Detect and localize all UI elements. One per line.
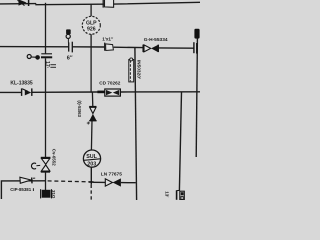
- far-right black terminal: [194, 29, 199, 39]
- wire top rail right: [36, 2, 200, 4]
- svg-text:(I)-53I63: (I)-53I63: [77, 100, 82, 117]
- terminal circle: [27, 55, 31, 59]
- svg-text:LN 77675: LN 77675: [101, 171, 122, 177]
- valve box 1'x1": [105, 43, 114, 51]
- diode D-top-left: [18, 0, 29, 6]
- long vertical wire x~135: [135, 47, 137, 200]
- junction dot: [35, 55, 40, 60]
- polarized capacitor plates on x=45.5: [41, 54, 52, 58]
- svg-text:Cv-6552: Cv-6552: [52, 149, 57, 166]
- wire to LN diode: [93, 181, 105, 183]
- tick mark near X-diode: [87, 122, 90, 125]
- tick marks left: [33, 178, 35, 191]
- dashed vertical below junction: [90, 185, 92, 200]
- svg-text:17·: 17·: [44, 61, 50, 69]
- wire X-diode to SUL stamp: [90, 121, 93, 151]
- wire into SUL junction: [90, 167, 92, 185]
- svg-text:13′: 13′: [165, 191, 170, 198]
- far-right vertical wire: [196, 38, 197, 157]
- stub wire: [31, 56, 35, 58]
- wire mid rail y~47: [0, 47, 194, 49]
- svg-text:CD 70262: CD 70262: [99, 81, 121, 86]
- stamp GLP 926: [82, 16, 100, 34]
- svg-text:6″: 6″: [67, 55, 73, 61]
- diode KL-13835: [22, 88, 32, 96]
- bottom black capacitor on x=45.5: [41, 189, 52, 198]
- svg-text:KL-13835: KL-13835: [10, 81, 32, 87]
- mid-right vertical wire: [179, 92, 181, 191]
- wire top rail left: [0, 3, 36, 5]
- vertical wire x=45.5 lower: [45, 58, 47, 157]
- svg-text:IN50320′: IN50320′: [135, 60, 141, 80]
- indicator ring: [66, 34, 70, 38]
- dashed-box component: [129, 58, 134, 82]
- junction cross: [89, 181, 94, 183]
- diode LN-77675: [105, 178, 121, 186]
- wire y=92 mid: [32, 91, 97, 93]
- svg-text:1′x1″: 1′x1″: [102, 37, 114, 42]
- svg-text:G-H-55334: G-H-55334: [144, 37, 168, 43]
- wire y=92 left: [0, 91, 21, 93]
- wire GLP stem lower: [90, 34, 92, 92]
- X-valve CA-6552 on x=45.5: [41, 158, 51, 172]
- valve box on top rail: [103, 0, 113, 8]
- far-right capacitor plates: [194, 42, 197, 53]
- wire GLP stem upper: [90, 4, 92, 16]
- svg-text:CIP-85381: CIP-85381: [10, 187, 32, 192]
- svg-text:926: 926: [87, 26, 96, 32]
- vertical wire x=45.5 bottom: [45, 172, 47, 190]
- wire x~92 down to X-diode: [91, 92, 93, 107]
- stamp SUL 203: [83, 150, 100, 168]
- valve G-H-55334: [143, 45, 158, 53]
- dashed wire y~181: [48, 180, 89, 183]
- small equals mark: [50, 65, 56, 68]
- diode CP-85381: [20, 177, 32, 183]
- bold lead into CD box: [97, 91, 105, 94]
- boxed diode CD-70262: [105, 89, 121, 96]
- stem to capacitor C1: [67, 39, 69, 43]
- indicator black square above C1: [66, 29, 71, 34]
- wire diode to vertical: [121, 182, 136, 184]
- svg-text:203: 203: [87, 162, 96, 168]
- vertical wire x=45.5 top: [45, 3, 47, 54]
- bottom-right connector: [177, 190, 185, 200]
- wire y=92 right: [121, 91, 201, 93]
- capacitor C1 plates: [69, 42, 73, 53]
- bottom rail left with corner: [1, 181, 45, 199]
- hook C terminal: [31, 163, 40, 169]
- X-diode pair x~92.5: [89, 107, 96, 121]
